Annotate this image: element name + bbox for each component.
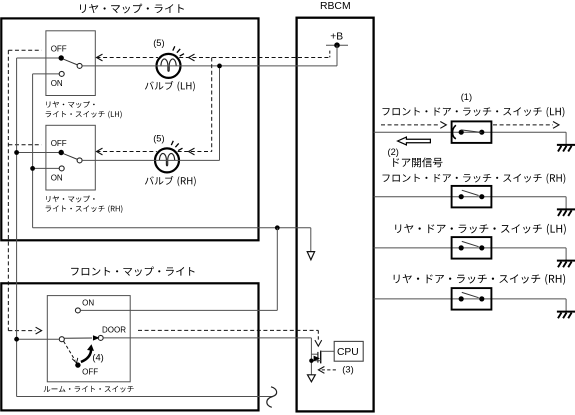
flow dashed: RH bulb row (left of bulb) [97,151,157,153]
flow arrow: LH row mid [189,54,195,61]
svg-text:DOOR: DOOR [102,326,126,335]
arrow: blade to DOOR [93,336,98,340]
label: door open signal [393,158,442,168]
wire: +B terminal bar [326,44,348,46]
bulb RH envelope [155,148,179,172]
latch switch rear LH left contact [459,245,464,250]
signal dashed: drop to transistor [317,330,319,341]
label: rear map light switch (RH) line2 [46,205,123,213]
svg-text:OFF: OFF [51,44,67,53]
wire: RBCM lamp return drop [310,228,312,252]
label: フロント・ドア・ラッチ・スイッチ (RH) (front RH) [383,173,566,183]
junction: ON rail at switch RH [30,166,35,171]
wire: drop to ground front RH [565,197,567,210]
ground arrow (RBCM internal, open triangle) [308,375,316,382]
front map light enclosure box [1,283,258,410]
wire: latch switch row front LH [374,131,566,133]
latch switch front RH box [452,186,492,208]
contact: room switch DOOR [98,335,103,340]
junction: room common at OFF rail [14,337,19,342]
wire: room ON riser [276,228,278,311]
ghost dashed: left rail [7,50,9,330]
wire: drop to ground rear LH [565,248,567,261]
rear map light switch (LH) box [46,31,95,96]
wire: ON rail to RBCM [33,227,311,229]
wire: DOOR into RBCM corner [310,338,312,375]
ground symbol front RH [557,209,575,216]
latch switch rear RH blade (open) [462,292,479,297]
ground symbol front LH [557,145,575,152]
wire: junction drop LH row to RH row [219,66,221,160]
transistor Q1 gate bar [317,352,319,363]
flow arrow front LH into switch [440,122,446,129]
flow arrow front LH to ground [553,122,559,129]
junction: +B terminal [334,42,340,48]
junction: source/ground [309,359,313,363]
wire: drop to ground rear RH [565,299,567,312]
contact: switch LH ON [59,71,64,76]
svg-text:ON: ON [51,174,63,183]
wire: latch switch row rear LH [374,247,566,249]
latch switch rear LH blade (open) [462,241,479,246]
blade: switch LH [64,59,78,65]
latch switch rear LH right contact [479,245,484,250]
wire: room DOOR lead [103,337,311,339]
rear map light enclosure box [1,18,258,240]
transistor Q1 drain lead [321,350,335,352]
blade: switch RH [64,154,78,160]
wire: gate tap [311,353,317,355]
label: bulb (LH) [145,81,195,91]
block arrow (2) door-open signal [398,137,431,145]
wire: latch switch row rear RH [374,298,566,300]
transistor Q1 source lead [311,360,320,362]
cable continuation squiggle [267,387,277,408]
flow dashed: +B to LH bulb row (left of bulb) [97,57,159,59]
curved arrow (4) head [88,345,93,350]
svg-text:+B: +B [330,31,343,42]
label: room light switch [44,386,134,393]
arrow: lamp return (open triangle) [307,252,314,260]
wire: room ON lead [80,309,277,311]
blade: common to DOOR [64,337,92,339]
svg-text:(5): (5) [153,38,164,48]
junction: OFF rail at switch RH [14,150,19,155]
wire: +B drop to bulb feed [336,45,338,66]
svg-text:RBCM: RBCM [320,1,351,12]
wire: ON rail vertical [32,74,34,228]
svg-text:(3): (3) [342,365,353,375]
bulb LH light rays [173,46,184,56]
junction: door lamp tap [275,225,280,230]
bulb LH filament [161,59,176,71]
label: rear map light switch (RH) line1 [46,196,94,203]
contact: room switch OFF [75,362,80,367]
wire: switch RH ON lead [33,167,60,169]
wire: switch RH OFF feed [17,152,59,154]
blade dashed: common to OFF [64,341,76,360]
svg-text:OFF: OFF [51,139,67,148]
contact: switch LH blade end [77,63,82,68]
svg-text:OFF: OFF [82,368,98,377]
room light switch box [47,296,130,382]
junction: bulb feed split [217,64,222,69]
RBCM enclosure box [297,18,374,412]
latch switch front LH right contact [479,130,484,135]
wire: latch switch row front RH [374,196,566,198]
latch switch rear LH box [452,237,492,259]
wire: room bottom run [17,396,273,398]
latch switch rear RH left contact [459,296,464,301]
wire: OFF rail vertical [16,58,18,397]
flow dashed front LH left [381,124,440,126]
contact: switch RH common (OFF) [59,150,64,155]
latch striker arc front LH [453,125,456,139]
label: rear map light switch (LH) line1 [46,101,94,108]
ghost arrow: into room switch [36,327,42,334]
latch switch front LH left contact [459,130,464,135]
transistor Q1 source arrow [314,356,319,360]
bulb LH envelope [157,54,181,78]
flow arrow: into switch RH [97,148,103,155]
latch switch front LH blade (closed) [461,130,481,133]
label: rear map light switch (LH) line2 [46,111,122,119]
wire: switch LH OFF feed [17,57,59,59]
ground symbol rear RH [557,312,575,319]
latch switch rear RH box [452,288,492,310]
svg-text:CPU: CPU [337,347,359,358]
contact: room switch common [59,337,64,342]
svg-text:(1): (1) [461,92,472,102]
ghost dashed: into room switch [8,330,35,332]
label: リヤ・ドア・ラッチ・スイッチ (LH) (rear LH) [395,224,566,235]
flow dashed: +B stub [329,51,331,58]
latch switch front LH box [452,121,492,142]
flow dashed: +B to LH bulb row (right of bulb) [179,57,330,59]
svg-text:(5): (5) [153,134,164,144]
bulb RH filament [159,153,174,165]
label: bulb (RH) [145,176,196,186]
label: フロント・ドア・ラッチ・スイッチ (LH) (front LH) [383,107,565,117]
latch switch front RH left contact [459,194,464,199]
signal arrow (3) [318,367,324,374]
latch switch front RH blade (open) [462,190,479,195]
flow dashed: RH bulb row (right of bulb) [178,151,212,153]
bulb RH light rays [171,141,182,151]
flow arrow: RH row mid [189,148,195,155]
curved arrow (4) body [81,349,91,362]
label: front map light (furonto mappu raito) [71,267,195,277]
wire: switch LH ON lead [33,73,60,75]
svg-text:ON: ON [51,79,63,88]
CPU box [334,341,363,361]
signal dashed (3) from CPU side [322,369,337,371]
rear map light switch (RH) box [46,125,95,190]
svg-text:(4): (4) [92,352,103,362]
ghost dashed: OFF stub LH [8,49,41,51]
wire: room common lead [17,338,60,340]
svg-text:ON: ON [82,299,94,308]
flow dashed: branch down to RH row [211,58,213,152]
svg-text:(2): (2) [388,147,399,157]
arrow: blade to OFF tip [72,358,78,363]
flow arrow: into switch LH [97,54,103,61]
contact: switch RH blade end [77,158,82,163]
ground symbol rear LH [557,261,575,268]
ghost dashed: OFF stub RH [8,144,41,146]
transistor Q1 channel bar [320,351,322,364]
signal dashed: DOOR to RBCM [138,329,318,331]
label: rear map light (riya mappu raito) [80,4,184,14]
signal arrow: into transistor [315,340,322,346]
contact: switch LH common (OFF) [59,55,64,60]
wire: bulb RH row (switch to junction) [82,159,219,161]
latch switch front RH right contact [479,194,484,199]
flow dashed front LH right [493,124,553,126]
label: リヤ・ドア・ラッチ・スイッチ (RH) (rear RH) [394,274,565,285]
wire: bulb LH row (switch to RBCM) [82,65,337,67]
contact: switch RH ON [59,166,64,171]
latch switch rear RH right contact [479,296,484,301]
contact: room switch ON [75,308,80,313]
wire: drop to ground front LH [565,132,567,145]
